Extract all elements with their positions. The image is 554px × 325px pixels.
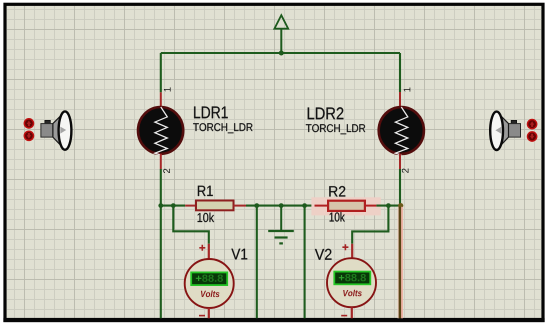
wire V1 branch elbow bbox=[173, 206, 209, 244]
R1 value label 10k bbox=[198, 213, 215, 223]
LDR1 reference label bbox=[194, 107, 228, 119]
junction LDR1 wire at bus bbox=[158, 203, 163, 208]
R1 reference label bbox=[198, 186, 213, 196]
LDR1 pin 2 stub bbox=[160, 154, 162, 169]
torch actuator down button (right) bbox=[528, 132, 537, 141]
wire bus left segment bbox=[161, 205, 185, 207]
junction at power arrow on top bus bbox=[279, 51, 284, 56]
R2 value label 10k bbox=[330, 212, 345, 222]
LDR2 pin 1 number bbox=[404, 87, 411, 91]
ground symbol bbox=[268, 231, 294, 243]
wire LDR1 bottom vertical down to frame bbox=[160, 169, 162, 318]
LDR2 value label TORCH_LDR bbox=[306, 124, 365, 134]
power terminal arrow (top rail) bbox=[274, 15, 288, 53]
R2 left lead bbox=[315, 205, 329, 207]
LDR1 pin 2 number bbox=[163, 169, 170, 173]
wire ground branch bbox=[280, 206, 282, 231]
torch actuator up button (right) bbox=[528, 120, 537, 129]
photoresistor LDR1 bbox=[138, 107, 183, 155]
V1 minus sign bbox=[199, 315, 205, 317]
junction wire down at bus right of ground bbox=[302, 203, 307, 208]
wire LDR2 top vertical bbox=[399, 53, 401, 92]
V1 plus sign bbox=[199, 245, 205, 251]
wire LDR2 bottom vertical to bus bbox=[399, 169, 401, 206]
LDR1 pin 1 number bbox=[164, 87, 171, 91]
wire bus right segment bbox=[376, 205, 400, 207]
selected wire highlight band (right, down from bus) bbox=[398, 207, 403, 318]
LDR1 value label TORCH_LDR bbox=[193, 123, 252, 133]
wire down to frame right of ground bbox=[304, 206, 306, 319]
V2 minus sign bbox=[341, 315, 347, 317]
LDR2 pin 2 stub bbox=[399, 154, 401, 169]
wire LDR1 top vertical bbox=[160, 53, 162, 92]
V2 positive pin stub bbox=[351, 244, 353, 258]
wire top bus from LDR1 to LDR2 bbox=[161, 52, 400, 54]
voltmeter V2 bbox=[327, 258, 376, 307]
torch lamp (right) bbox=[490, 112, 520, 150]
wire V2 branch elbow bbox=[352, 206, 388, 244]
V2 negative pin stub bbox=[351, 307, 353, 318]
LDR2 pin 1 stub bbox=[399, 92, 401, 107]
V2 plus sign bbox=[342, 244, 348, 250]
resistor R2 body bbox=[328, 201, 365, 211]
junction V2 branch at bus bbox=[386, 203, 391, 208]
selection highlight around R2 bbox=[311, 197, 380, 215]
R2 right lead bbox=[365, 205, 377, 207]
selected wire core down to frame bbox=[399, 207, 402, 318]
torch actuator down button (left) bbox=[24, 131, 33, 140]
R1 left lead bbox=[185, 205, 196, 207]
V1 negative pin stub bbox=[208, 308, 210, 318]
V1 reference label bbox=[231, 249, 247, 260]
junction LDR2 wire at bus (selected net) bbox=[398, 203, 403, 208]
wire bus middle segment bbox=[246, 205, 315, 207]
junction ground at bus bbox=[279, 203, 284, 208]
resistor R1 body bbox=[196, 201, 234, 211]
torch lamp (left) bbox=[41, 111, 72, 149]
LDR2 pin 2 number bbox=[402, 168, 409, 172]
photoresistor LDR2 bbox=[379, 107, 424, 155]
voltmeter V1 bbox=[185, 259, 234, 308]
junction V1 branch at bus bbox=[171, 203, 176, 208]
LDR2 reference label bbox=[308, 107, 344, 119]
wire down to frame left of ground bbox=[256, 206, 258, 319]
R2 reference label bbox=[329, 186, 345, 197]
junction wire down at bus left of ground bbox=[254, 203, 259, 208]
torch actuator up button (left) bbox=[24, 119, 33, 128]
LDR1 pin 1 stub bbox=[160, 92, 162, 107]
R1 right lead bbox=[234, 205, 247, 207]
V2 reference label bbox=[315, 249, 332, 260]
V1 positive pin stub bbox=[208, 244, 210, 259]
